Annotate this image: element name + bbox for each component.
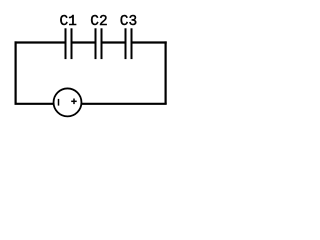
label C1	[59, 14, 76, 30]
wire: right vertical side	[165, 41, 167, 103]
voltage source positive terminal plus sign	[71, 99, 77, 105]
wire: bottom segment	[15, 103, 167, 105]
wire: top segment C3 to right corner	[132, 41, 167, 43]
wire: top segment C1 to C2	[72, 41, 96, 43]
capacitor C3	[126, 28, 132, 59]
label C3	[120, 14, 137, 30]
voltage source V1: circle body	[54, 88, 82, 116]
svg-text:C1: C1	[59, 14, 76, 30]
svg-text:C3: C3	[120, 14, 137, 30]
capacitor C2	[96, 28, 102, 59]
wire: top segment from left corner to C1	[15, 41, 66, 43]
wire: top segment C2 to C3	[102, 41, 126, 43]
svg-text:C2: C2	[90, 14, 107, 30]
wire: left vertical side	[15, 41, 17, 103]
label C2	[90, 14, 107, 30]
capacitor C1	[66, 28, 72, 59]
voltage source negative terminal bar	[58, 99, 60, 106]
